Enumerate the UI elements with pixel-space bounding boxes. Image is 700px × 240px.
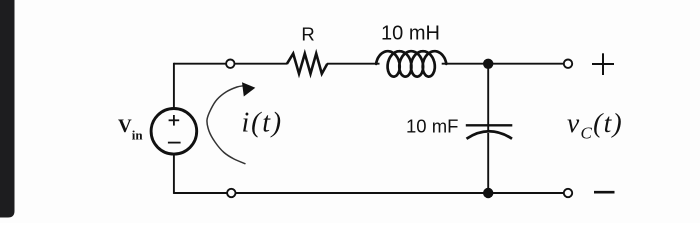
source - <box>168 142 181 144</box>
capacitor branch vertical wire lower <box>487 133 489 194</box>
node (open) on top wire <box>226 60 234 68</box>
wire: inductor to right terminal <box>442 63 564 65</box>
capacitor branch vertical wire upper <box>487 64 489 131</box>
svg-text:10 mH: 10 mH <box>381 23 440 45</box>
current arrow arc i(t) <box>207 86 246 164</box>
wire top: left corner to node <box>174 63 226 65</box>
left vertical wire lower <box>173 154 175 194</box>
inductor 10 mH (coil) <box>376 51 446 76</box>
svg-text:R: R <box>301 24 314 45</box>
minus sign (output polarity) <box>594 191 615 194</box>
terminal bottom (open circle) <box>564 189 572 197</box>
bottom wire: node to right terminal <box>236 192 565 194</box>
resistor R <box>287 54 327 74</box>
capacitor top plate <box>466 124 513 126</box>
junction dot bottom <box>483 188 493 198</box>
terminal top (open circle) <box>564 60 572 68</box>
wire: resistor to inductor <box>327 63 380 65</box>
plus sign (output polarity) <box>592 63 614 65</box>
arrowhead <box>242 82 255 96</box>
svg-text:vC(t): vC(t) <box>567 107 623 143</box>
svg-text:i(t): i(t) <box>242 108 283 139</box>
node (open) on bottom wire <box>227 189 235 197</box>
left dark sidebar <box>0 0 15 218</box>
svg-text:10 mF: 10 mF <box>406 115 458 136</box>
wire: node to resistor <box>235 63 288 65</box>
left vertical wire upper <box>173 63 175 109</box>
bottom wire: left corner to node <box>174 192 227 194</box>
capacitor curved plate <box>467 131 513 138</box>
junction dot top <box>483 59 493 69</box>
source + <box>169 119 180 121</box>
voltage source Vin circle <box>151 109 197 155</box>
